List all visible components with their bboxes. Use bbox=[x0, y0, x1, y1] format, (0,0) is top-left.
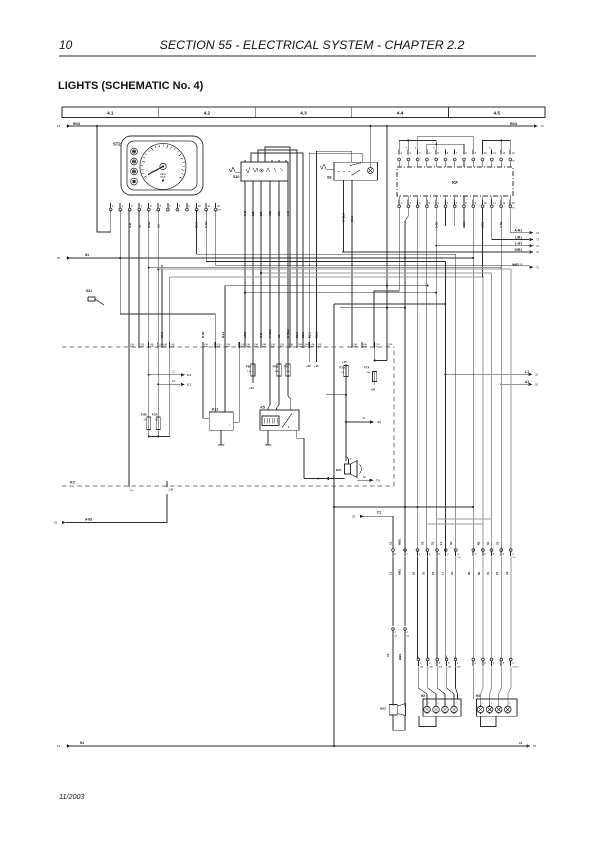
svg-text:N1: N1 bbox=[467, 571, 471, 575]
svg-text:SECTION 55 - ELECTRICAL SYSTEM: SECTION 55 - ELECTRICAL SYSTEM - CHAPTER… bbox=[160, 38, 465, 52]
svg-text:C1: C1 bbox=[389, 541, 393, 545]
svg-text:N-B: N-B bbox=[243, 211, 247, 216]
svg-text:S1: S1 bbox=[422, 571, 426, 575]
svg-text:L/R1: L/R1 bbox=[243, 331, 247, 338]
svg-text:S.1: S.1 bbox=[187, 373, 192, 377]
svg-text:R-N1.5: R-N1.5 bbox=[286, 329, 290, 338]
svg-text:+: + bbox=[350, 457, 352, 461]
svg-text:.: . bbox=[77, 481, 78, 485]
svg-text:4.3: 4.3 bbox=[377, 420, 381, 424]
svg-text:33: 33 bbox=[352, 515, 356, 519]
svg-text:C1: C1 bbox=[386, 653, 390, 657]
svg-text:S31: S31 bbox=[86, 289, 92, 293]
svg-text:G1.5: G1.5 bbox=[160, 331, 164, 338]
svg-text:A1: A1 bbox=[505, 571, 509, 575]
svg-text:LIGHTS (SCHEMATIC No. 4): LIGHTS (SCHEMATIC No. 4) bbox=[58, 80, 204, 92]
svg-text:4.5: 4.5 bbox=[494, 111, 501, 116]
svg-text:F2A: F2A bbox=[340, 366, 347, 370]
svg-text:N1: N1 bbox=[477, 541, 481, 545]
svg-text:4.3: 4.3 bbox=[300, 111, 307, 116]
svg-text:N1: N1 bbox=[80, 741, 84, 745]
svg-text:H-L1: H-L1 bbox=[221, 331, 225, 338]
svg-text:H3: H3 bbox=[476, 694, 480, 698]
svg-text:13: 13 bbox=[57, 124, 61, 128]
svg-text:F5B: F5B bbox=[273, 365, 280, 369]
svg-text:A-B: A-B bbox=[128, 223, 132, 228]
svg-text:R/N1: R/N1 bbox=[73, 122, 80, 126]
svg-text:HA2: HA2 bbox=[380, 707, 386, 711]
svg-text:S1: S1 bbox=[412, 571, 416, 575]
svg-text:KC: KC bbox=[70, 481, 76, 485]
svg-text:N1: N1 bbox=[477, 571, 481, 575]
svg-text:A1: A1 bbox=[525, 380, 529, 384]
svg-text:A/B: A/B bbox=[268, 211, 272, 216]
svg-text:S1: S1 bbox=[431, 571, 435, 575]
svg-text:+30: +30 bbox=[371, 388, 376, 392]
svg-text:+15: +15 bbox=[314, 364, 319, 368]
svg-text:S1: S1 bbox=[486, 541, 490, 545]
svg-text:25: 25 bbox=[57, 256, 61, 260]
svg-text:KF: KF bbox=[452, 180, 458, 185]
svg-text:F3A: F3A bbox=[152, 413, 159, 417]
svg-text:S/N: S/N bbox=[277, 211, 281, 216]
svg-text:L1: L1 bbox=[439, 541, 443, 545]
svg-text:H2: H2 bbox=[421, 694, 425, 698]
svg-text:A-N1: A-N1 bbox=[515, 228, 523, 232]
svg-text:R-N1: R-N1 bbox=[201, 331, 205, 338]
svg-text:N1: N1 bbox=[277, 334, 281, 338]
svg-text:1A: 1A bbox=[155, 419, 158, 422]
svg-text:G-N1.5: G-N1.5 bbox=[512, 667, 518, 669]
svg-text:S1: S1 bbox=[495, 571, 499, 575]
svg-text:S1: S1 bbox=[431, 541, 435, 545]
svg-text:L1: L1 bbox=[525, 370, 529, 374]
svg-text:+30: +30 bbox=[306, 364, 311, 368]
svg-text:S1: S1 bbox=[137, 224, 141, 228]
svg-text:R/N1: R/N1 bbox=[510, 122, 517, 126]
svg-text:13: 13 bbox=[57, 744, 61, 748]
svg-text:H/B1: H/B1 bbox=[398, 569, 402, 575]
svg-text:BZ1: BZ1 bbox=[336, 468, 342, 472]
svg-text:S1: S1 bbox=[421, 541, 425, 545]
svg-text:G/R1: G/R1 bbox=[515, 248, 523, 252]
svg-text:S10: S10 bbox=[233, 175, 239, 179]
svg-text:L/B: L/B bbox=[251, 211, 255, 216]
svg-text:F5C: F5C bbox=[284, 365, 291, 369]
svg-text:L-G1: L-G1 bbox=[515, 242, 522, 246]
svg-text:K5: K5 bbox=[261, 406, 265, 410]
svg-text:H-N1.3: H-N1.3 bbox=[342, 213, 346, 222]
svg-text:SOS: SOS bbox=[217, 210, 222, 212]
svg-text:S.1: S.1 bbox=[187, 383, 192, 387]
svg-text:11/2003: 11/2003 bbox=[59, 792, 84, 801]
svg-text:G1: G1 bbox=[450, 571, 454, 575]
svg-text:4.4: 4.4 bbox=[397, 111, 404, 116]
svg-text:H/B1: H/B1 bbox=[398, 653, 402, 660]
svg-text:L/R: L/R bbox=[259, 211, 263, 216]
svg-text:N1: N1 bbox=[85, 253, 89, 257]
svg-text:F6B: F6B bbox=[246, 365, 253, 369]
svg-text:S9: S9 bbox=[327, 176, 331, 180]
svg-text:1A: 1A bbox=[317, 477, 320, 481]
svg-text:10A: 10A bbox=[366, 371, 370, 374]
svg-text:4.1: 4.1 bbox=[107, 111, 114, 116]
svg-text:R1.5: R1.5 bbox=[295, 332, 299, 338]
svg-text:10: 10 bbox=[59, 38, 73, 52]
svg-text:14: 14 bbox=[519, 741, 523, 745]
svg-text:K12: K12 bbox=[212, 407, 218, 411]
svg-text:H-B: H-B bbox=[259, 333, 263, 338]
svg-text:R2.3: R2.3 bbox=[315, 332, 319, 338]
svg-text:+15: +15 bbox=[249, 386, 254, 390]
svg-text:R2.5: R2.5 bbox=[301, 332, 305, 338]
svg-text:4.2: 4.2 bbox=[204, 111, 211, 116]
svg-text:H/B1: H/B1 bbox=[398, 538, 402, 545]
svg-text:G1: G1 bbox=[449, 541, 453, 545]
svg-text:C1: C1 bbox=[377, 511, 381, 515]
svg-text:A-B1: A-B1 bbox=[85, 518, 93, 522]
svg-text:23: 23 bbox=[54, 521, 58, 525]
svg-text:F7A: F7A bbox=[364, 366, 371, 370]
svg-text:Km/h: Km/h bbox=[160, 177, 166, 179]
svg-text:G2.3: G2.3 bbox=[350, 215, 354, 222]
svg-text:C4B: C4B bbox=[169, 489, 174, 492]
svg-text:F3B: F3B bbox=[141, 413, 148, 417]
svg-text:7.5A: 7.5A bbox=[247, 370, 252, 373]
svg-text:R2.5: R2.5 bbox=[307, 332, 311, 338]
svg-text:C1: C1 bbox=[389, 571, 393, 575]
svg-text:A-G: A-G bbox=[286, 211, 290, 216]
svg-text:ST2: ST2 bbox=[113, 142, 121, 147]
svg-text:S1: S1 bbox=[486, 571, 490, 575]
svg-text:P-N1.5: P-N1.5 bbox=[268, 329, 272, 338]
svg-text:7.5: 7.5 bbox=[376, 478, 380, 482]
svg-text:S1: S1 bbox=[496, 541, 500, 545]
svg-text:+15: +15 bbox=[342, 360, 347, 364]
svg-text:N/R1.2: N/R1.2 bbox=[512, 263, 522, 267]
svg-text:L/R1: L/R1 bbox=[515, 235, 522, 239]
